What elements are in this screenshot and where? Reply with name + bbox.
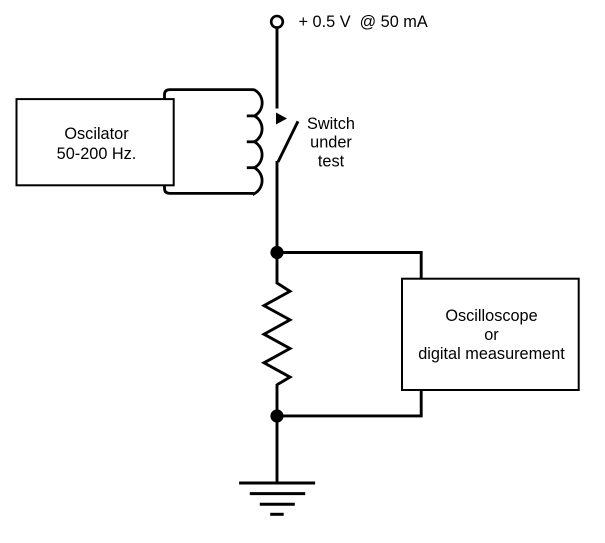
- label: Oscilator 50-200 Hz.: [57, 125, 137, 163]
- resistor R1: [264, 283, 290, 385]
- ground: [239, 483, 315, 514]
- coil cusp tick 1: [247, 115, 255, 118]
- wire: switch blade to node A: [276, 161, 279, 253]
- wire: resistor to node B: [276, 384, 279, 416]
- svg-text:under: under: [310, 134, 352, 152]
- svg-text:test: test: [318, 152, 345, 170]
- wire: terminal to switch contact: [276, 29, 279, 109]
- label: Switch under test: [307, 115, 355, 171]
- oscillator box: [17, 99, 174, 185]
- svg-text:Switch: Switch: [307, 115, 355, 133]
- svg-text:+ 0.5 V @ 50 mA: + 0.5 V @ 50 mA: [299, 13, 428, 31]
- node B: [270, 409, 283, 422]
- wire: node A to resistor: [276, 253, 279, 285]
- svg-text:50-200 Hz.: 50-200 Hz.: [57, 145, 137, 163]
- wire: node B to oscilloscope box bottom: [277, 389, 421, 416]
- switch blade (open): [278, 121, 298, 162]
- coil cusp tick 2: [247, 140, 255, 143]
- node A: [270, 246, 283, 259]
- svg-text:or: or: [484, 326, 499, 344]
- switch fixed contact arrow: [276, 113, 287, 125]
- relay coil L1: [165, 90, 263, 194]
- wire: node A to oscilloscope box top: [277, 253, 421, 280]
- wire: node B to ground: [276, 416, 279, 483]
- coil cusp tick 3: [247, 166, 255, 169]
- oscilloscope box: [402, 279, 579, 390]
- terminal: +0.5V input: [271, 16, 283, 28]
- label: Oscilloscope or digital measurement: [418, 307, 565, 363]
- svg-text:digital measurement: digital measurement: [418, 345, 565, 363]
- svg-text:Oscilator: Oscilator: [64, 125, 129, 143]
- svg-text:Oscilloscope: Oscilloscope: [445, 307, 537, 325]
